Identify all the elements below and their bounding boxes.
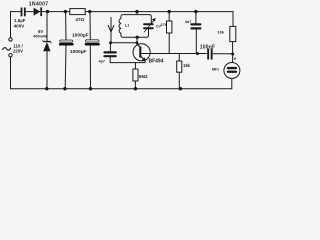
svg-text:100nF: 100nF [200,45,215,51]
svg-text:1000µF: 1000µF [72,32,89,38]
resistor 56R [133,69,138,81]
wire zener column [46,12,48,89]
svg-text:L1: L1 [125,23,129,27]
resistor 10k [230,26,236,41]
capacitor 100nF [207,49,212,60]
capacitor C3 1000uF (electrolytic) [85,40,100,46]
wire 15k leads [178,54,180,89]
svg-text:1000µF: 1000µF [70,49,87,55]
wire tank top stub [136,12,138,15]
wire capacitor C3 column [89,12,92,89]
antenna [108,17,114,42]
resistor 15k [177,61,182,72]
AC source 110/220V [2,38,12,57]
wire tank top horizontal [121,15,151,24]
junction dots tank and collector node [109,36,139,45]
junction dots bottom rail [45,87,182,90]
wire tank bottom horizontal [121,29,149,37]
capacitor C2 1000uF (electrolytic) [59,40,74,46]
wire 4p7 top lead [109,43,111,52]
wire 4n7 leads [195,12,197,54]
wire 4p7 bottom to emitter [110,57,145,62]
svg-text:+: + [234,56,237,62]
svg-text:400mW: 400mW [33,34,47,39]
wire base horizontal [141,53,207,55]
wire mic bottom lead [231,79,233,89]
resistor 27k [167,21,172,33]
transistor Q1 BF494 [133,44,150,61]
svg-text:MIC: MIC [212,67,219,72]
svg-text:10k: 10k [217,30,224,35]
svg-text:47Ω: 47Ω [75,17,84,22]
svg-text:27k: 27k [160,22,167,27]
svg-text:1,5µF: 1,5µF [14,18,26,23]
wire 27k leads [168,12,170,54]
svg-text:4p7: 4p7 [99,60,105,64]
zener diode 6V 400mW [42,39,51,51]
wire left drop to AC terminal [10,12,12,38]
wire bottom rail [11,88,232,90]
svg-text:56Ω: 56Ω [139,74,148,79]
diode D1 1N4007 [34,7,43,16]
svg-text:220V: 220V [13,48,23,53]
wire collector stub [136,37,138,44]
wire AC bottom terminal to bottom rail [10,57,12,89]
svg-text:15k: 15k [183,63,191,68]
svg-text:BF494: BF494 [148,58,163,64]
wire top rail [11,11,234,13]
inductor L1 [119,19,121,34]
junction dot base/4n7 node [196,52,199,55]
wire 10k column [232,12,234,63]
wire 100nF to mic node [213,53,233,55]
wire antenna node to collector [111,42,137,44]
resistor R1 47R [70,9,85,15]
svg-text:4n7: 4n7 [185,20,192,24]
capacitor 4n7 [190,23,201,29]
wire capacitor C2 column [64,12,67,89]
junction dot mic top node [231,53,234,56]
junction dots top rail [46,10,198,13]
capacitor 4p7 [103,51,116,57]
variable capacitor CV [143,23,154,29]
electret microphone MIC [224,63,240,79]
wire emitter to 56R [134,63,136,89]
capacitor C1 1,5uF 400V [21,8,26,17]
svg-text:1N4007: 1N4007 [29,1,49,7]
svg-text:400V: 400V [14,24,26,29]
